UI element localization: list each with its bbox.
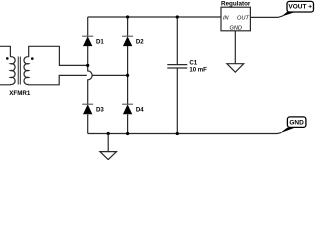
svg-text:GND: GND (289, 120, 304, 127)
svg-text:C1: C1 (189, 59, 197, 66)
wire regulator GND pin (234, 31, 236, 64)
wire hop over secondary bottom (88, 65, 92, 104)
diode D2 (122, 36, 144, 46)
wire D1 cathode to rail (87, 17, 89, 36)
wire secondary bottom jog (29, 75, 87, 84)
junction bottom rail / D4 (126, 132, 129, 135)
svg-text:D3: D3 (96, 107, 104, 114)
ground symbol below regulator (227, 64, 244, 72)
wire D2 anode to node B (127, 46, 129, 76)
transformer XFMR1 secondary winding (24, 57, 29, 85)
wire D2 cathode (127, 17, 129, 36)
terminal flag GND (280, 117, 306, 133)
wire top rail (88, 16, 221, 18)
junction bottom rail / ground tap (107, 132, 110, 135)
junction node A secondary top / D1-D3 column (86, 64, 89, 67)
transformer core lines (18, 57, 20, 85)
svg-text:GND: GND (229, 26, 241, 32)
svg-text:10 mF: 10 mF (189, 67, 207, 74)
transformer XFMR1 primary winding (10, 57, 15, 85)
diode D4 (122, 104, 144, 114)
wire primary top terminal (0, 46, 10, 57)
svg-text:IN: IN (223, 15, 230, 21)
junction node B secondary bottom / D2-D4 column (126, 74, 129, 77)
wire D4 anode to bottom rail (127, 115, 129, 134)
diode D1 (82, 36, 104, 46)
wire C1 bottom (176, 68, 178, 133)
svg-text:D4: D4 (136, 107, 144, 114)
svg-text:D1: D1 (96, 39, 104, 46)
regulator U1 box (221, 1, 251, 32)
wire secondary top to bridge node A (29, 46, 88, 65)
ground symbol below bridge (100, 134, 117, 160)
wire C1 top (176, 17, 178, 64)
terminal flag VOUT + (281, 1, 313, 16)
wire regulator OUT to VOUT (250, 16, 283, 18)
junction top rail / D2 (126, 15, 129, 18)
svg-text:XFMR1: XFMR1 (9, 90, 31, 97)
wire D3 anode to bottom rail (87, 115, 89, 134)
wire secondary bottom to node B after hop (92, 74, 128, 76)
transformer phase dot primary (6, 57, 9, 60)
transformer phase dot secondary (31, 57, 34, 60)
svg-text:D2: D2 (136, 39, 144, 46)
capacitor C1 (167, 59, 207, 73)
wire D1 anode to node A (87, 46, 89, 66)
svg-text:VOUT +: VOUT + (288, 4, 312, 11)
wire primary bottom terminal (0, 83, 10, 86)
svg-text:OUT: OUT (237, 15, 249, 21)
junction top rail / C1 (176, 15, 179, 18)
junction bottom rail / C1 (176, 132, 179, 135)
diode D3 (82, 104, 104, 114)
wire bottom rail (88, 132, 281, 135)
wire D4 cathode from node B (127, 75, 129, 104)
svg-text:Regulator: Regulator (221, 1, 251, 8)
